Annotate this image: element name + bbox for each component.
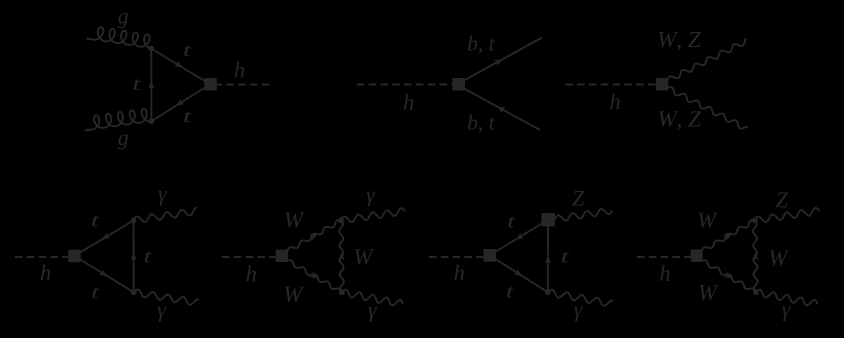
label gamma (lower) xyxy=(368,307,377,322)
label gamma xyxy=(574,307,583,322)
label t (upper) xyxy=(92,216,99,227)
fermion line b,t (upper outgoing) xyxy=(464,38,542,81)
top quark line t (lower side of loop) xyxy=(151,88,205,122)
top quark line t (lower side) xyxy=(75,256,134,292)
label g (upper gluon) xyxy=(118,13,128,28)
higgs line h (incoming, dashed) xyxy=(429,256,483,258)
label t (right) xyxy=(562,252,569,263)
label t (upper) xyxy=(508,217,515,228)
effective vertex h (square) xyxy=(484,249,496,262)
arrow on lower t xyxy=(99,269,108,276)
top quark line t (left side of loop) xyxy=(150,49,152,122)
hff vertex (square) xyxy=(452,78,465,91)
top quark line t (right side) xyxy=(547,226,549,292)
W boson line (right side wavy) xyxy=(339,220,344,292)
fermion line b,t (lower outgoing) xyxy=(464,89,540,131)
loop vertex lower (dot) xyxy=(753,289,759,295)
photon gamma (lower outgoing wavy) xyxy=(134,290,199,305)
label h (diagram 7) xyxy=(660,265,670,281)
label h (diagram 6) xyxy=(454,265,464,281)
label gamma (upper) xyxy=(367,192,376,207)
label W, Z (lower) xyxy=(659,111,701,130)
higgs line h (incoming, dashed) xyxy=(565,84,655,86)
label h (diagram 1) xyxy=(235,62,245,78)
label t (lower) xyxy=(92,287,99,298)
effective vertex (square) xyxy=(691,250,703,262)
arrow on right t (up) xyxy=(130,252,136,260)
photon gamma (upper outgoing wavy) xyxy=(134,208,198,223)
arrow on upper W (toward top vertex) xyxy=(309,234,318,241)
label b, t (lower) xyxy=(468,115,495,133)
Z boson line (outgoing wavy) xyxy=(555,209,612,221)
boson line W,Z (upper outgoing wavy) xyxy=(668,38,747,80)
arrow on lower t xyxy=(514,269,522,276)
label gamma (lower) xyxy=(158,307,167,322)
label t (left side) xyxy=(134,79,141,90)
top quark line t (lower side) xyxy=(490,255,548,292)
boson line W,Z (lower outgoing wavy) xyxy=(668,87,749,129)
hVV vertex (square) xyxy=(656,78,668,90)
photon gamma (outgoing wavy) xyxy=(756,290,818,306)
label Z xyxy=(776,193,788,208)
loop vertex lower (dot) xyxy=(545,289,551,295)
higgs line h (incoming, dashed) xyxy=(222,256,275,258)
label W (right) xyxy=(355,249,374,264)
arrow on right t (up) xyxy=(545,255,551,263)
label W (upper left) xyxy=(285,212,304,227)
W boson line (upper side wavy) xyxy=(702,220,755,251)
arrow on right W (up) xyxy=(752,252,758,260)
label W (lower left) xyxy=(285,287,304,302)
arrow on upper b,t line xyxy=(494,59,503,66)
effective vertex (square) xyxy=(68,250,81,263)
label gamma (upper) xyxy=(158,191,167,206)
label t (right) xyxy=(145,252,152,263)
higgs line h (incoming, dashed) xyxy=(357,84,453,86)
W boson line (right side wavy) xyxy=(753,220,758,292)
arrow on lower W (toward bottom vertex) xyxy=(310,272,319,279)
label W (right) xyxy=(770,250,789,265)
top quark line t (right side) xyxy=(133,220,135,292)
arrow on right W (up) xyxy=(338,252,344,260)
label Z xyxy=(572,191,584,206)
photon gamma (upper outgoing wavy) xyxy=(341,208,405,222)
label W (lower left) xyxy=(699,285,718,300)
label t (lower) xyxy=(507,287,514,298)
effective hgg vertex (square) xyxy=(204,78,217,90)
top quark line t (upper side) xyxy=(490,220,549,256)
loop vertex lower (dot) xyxy=(131,289,137,295)
photon gamma (outgoing wavy) xyxy=(548,290,613,306)
W boson line (upper side wavy) xyxy=(288,220,342,251)
label gamma xyxy=(782,307,791,322)
label t (lower side) xyxy=(184,111,191,122)
arrow on lower t line xyxy=(176,99,185,106)
higgs line h (incoming, dashed) xyxy=(637,256,690,258)
Z boson line (outgoing wavy) xyxy=(755,208,820,222)
top quark line t (upper side of loop) xyxy=(151,49,205,82)
label h (diagram 5) xyxy=(246,266,256,282)
higgs line h (incoming, dashed) xyxy=(15,256,68,258)
arrow on lower b,t line xyxy=(497,107,506,114)
gluon g (upper incoming) xyxy=(87,27,152,48)
arrow on left t line xyxy=(148,81,154,89)
arrow on lower W xyxy=(724,272,733,279)
loop vertex upper (dot) xyxy=(131,218,137,224)
W boson line (lower side wavy) xyxy=(288,260,343,292)
loop vertex (lower) xyxy=(149,118,155,124)
W boson line (lower side wavy) xyxy=(702,260,756,292)
loop vertex lower (dot) xyxy=(339,289,345,295)
photon gamma (lower outgoing wavy) xyxy=(342,290,403,306)
higgs line h (outgoing, dashed) xyxy=(217,84,270,86)
loop vertex upper (dot) xyxy=(752,218,758,224)
label W, Z (upper) xyxy=(659,32,701,51)
label h (diagram 4) xyxy=(41,264,51,280)
loop vertex (upper) xyxy=(148,46,154,52)
label h (diagram 3) xyxy=(610,93,620,109)
effective vertex (square) xyxy=(276,250,288,262)
label t (upper side) xyxy=(184,45,191,56)
loop vertex upper (dot) xyxy=(338,218,344,224)
top quark line t (upper side) xyxy=(75,220,134,256)
arrow on upper t (toward h vertex) xyxy=(516,233,525,240)
label W (upper left) xyxy=(699,213,718,228)
label b, t (upper) xyxy=(468,36,495,54)
arrow on upper t (toward square) xyxy=(102,233,111,240)
arrow on upper W xyxy=(723,234,732,241)
label h (diagram 2) xyxy=(404,94,414,110)
label g (lower gluon) xyxy=(118,135,128,150)
gluon g (lower incoming) xyxy=(85,109,151,131)
arrow on upper t line xyxy=(174,61,183,68)
effective Z vertex (square) xyxy=(542,213,555,226)
